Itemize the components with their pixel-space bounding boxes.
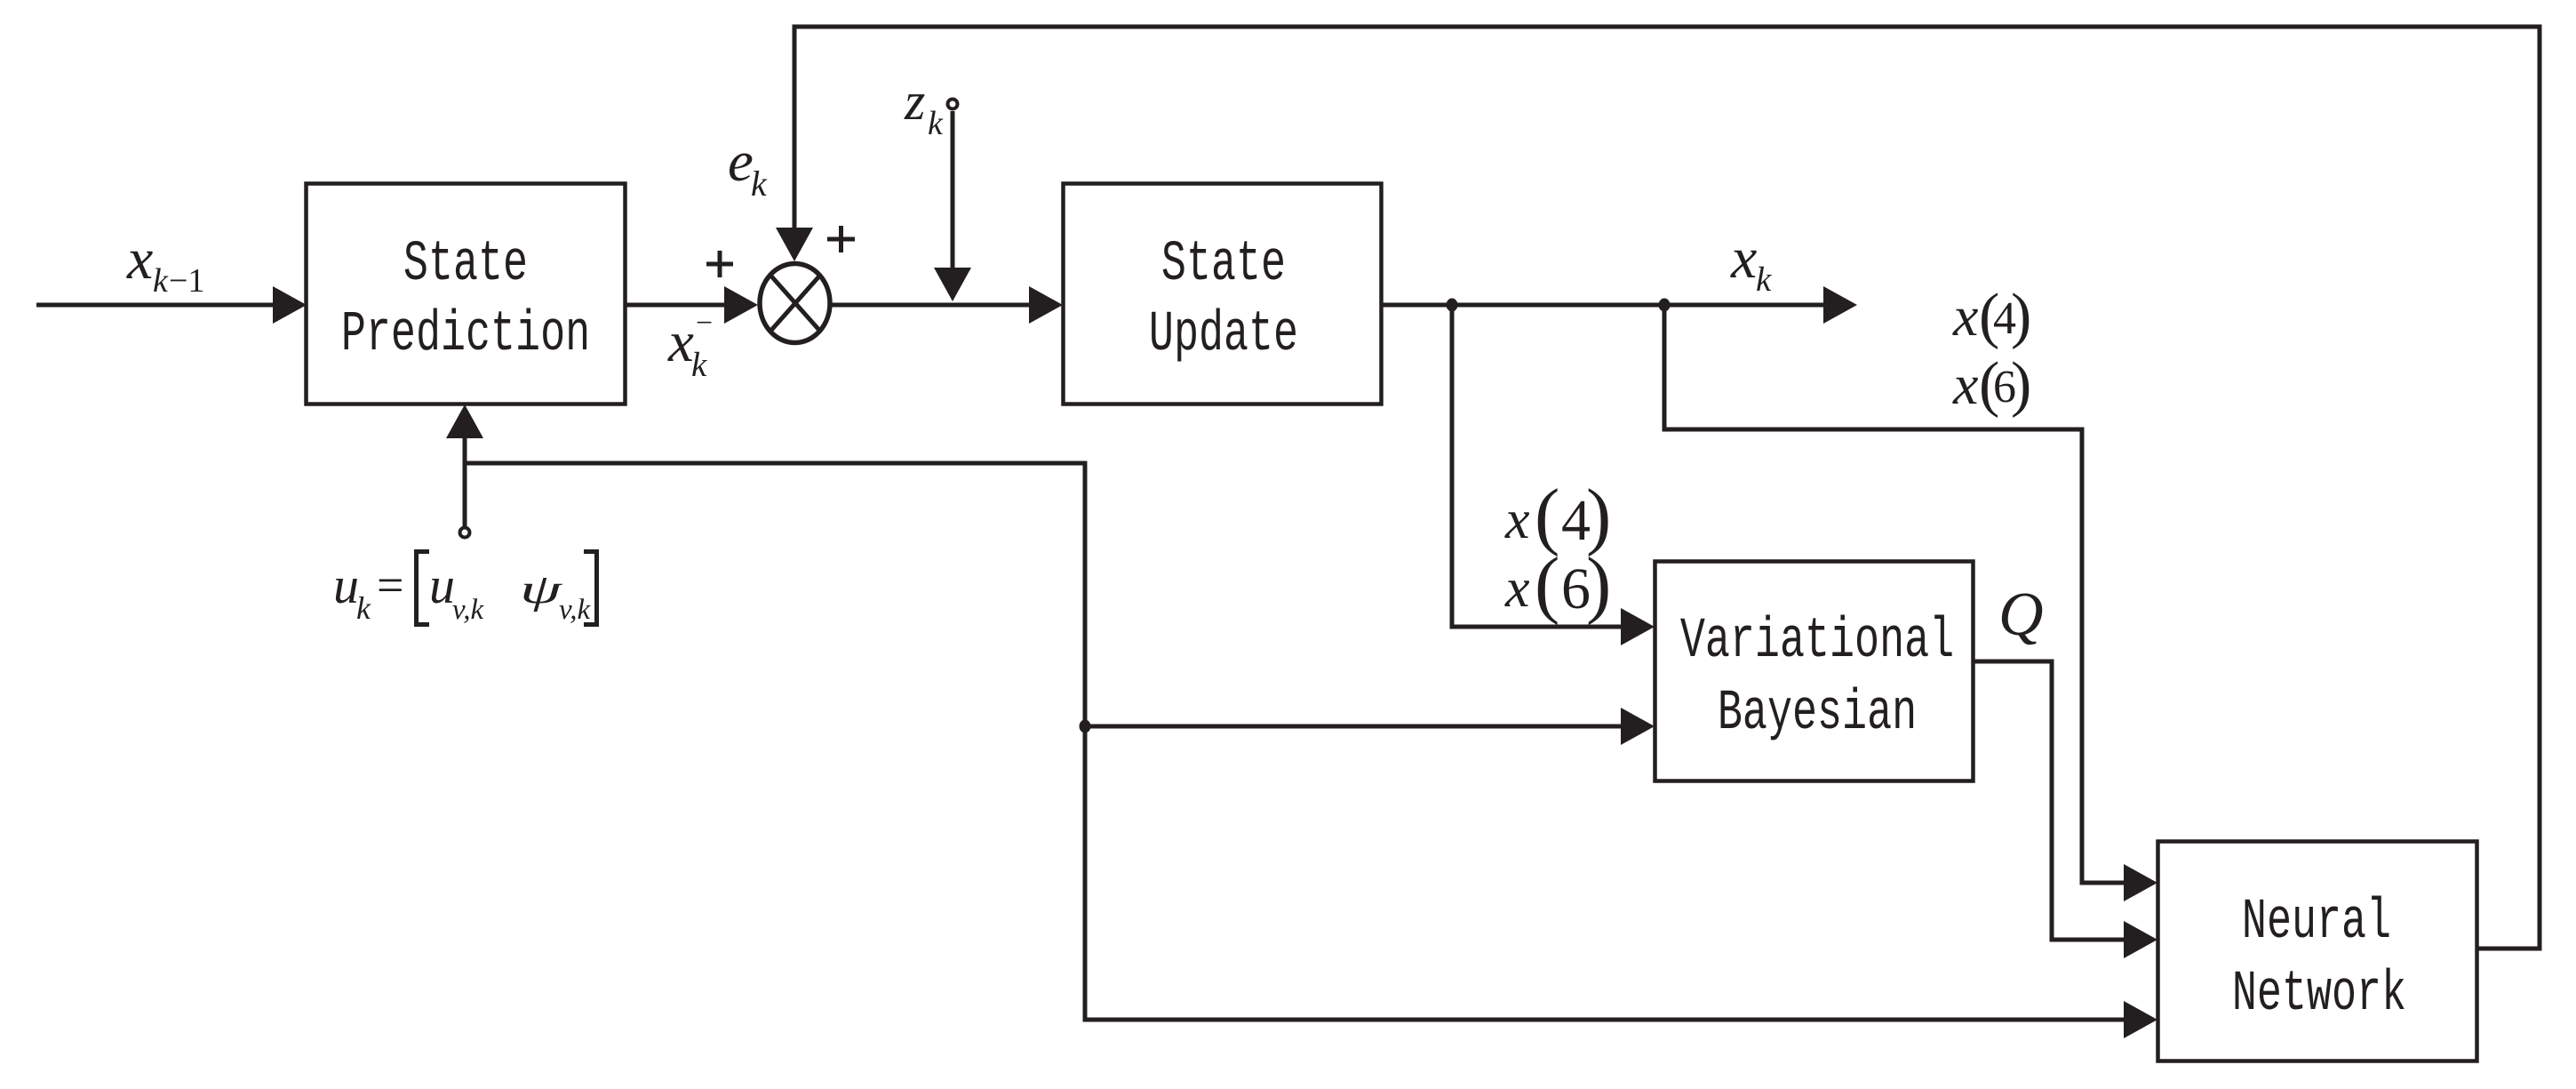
arrow e_k into summer top xyxy=(776,228,813,261)
svg-text:State: State xyxy=(1161,231,1286,296)
arrow u_k into State Prediction bottom xyxy=(446,404,483,438)
node junction J1 xyxy=(1447,299,1458,312)
svg-text:k: k xyxy=(751,164,768,204)
svg-text:x: x xyxy=(1504,490,1530,550)
svg-text:k: k xyxy=(356,590,371,626)
svg-text:x: x xyxy=(667,310,694,374)
arrow into Neural Network input 3 xyxy=(2124,1001,2157,1038)
arrow into Neural Network input 1 xyxy=(2124,864,2157,901)
summer (multiplier junction) xyxy=(760,264,830,343)
svg-text:Q: Q xyxy=(1998,581,2044,649)
wire u_k up into State Prediction xyxy=(463,436,467,526)
svg-text:u: u xyxy=(333,557,359,614)
wire feedback e_k from top into summer xyxy=(794,27,2540,949)
arrow into State Prediction xyxy=(273,286,307,324)
svg-text:v,k: v,k xyxy=(452,594,484,626)
svg-text:k: k xyxy=(928,105,944,142)
label u_k = [u_{v,k} psi_{v,k}] xyxy=(333,552,597,627)
svg-text:x: x xyxy=(1504,558,1530,619)
svg-text:Network: Network xyxy=(2232,961,2406,1026)
wire J3 to Variational Bayesian input 2 xyxy=(1085,725,1623,729)
svg-text:): ) xyxy=(2011,282,2031,350)
svg-text:Neural: Neural xyxy=(2242,889,2391,954)
label x_k xyxy=(1730,226,1772,299)
svg-text:−1: −1 xyxy=(169,262,204,300)
node junction J3 xyxy=(1080,720,1091,733)
wire input x_{k-1} xyxy=(36,303,277,308)
label e_k xyxy=(728,130,768,204)
label x(4) top xyxy=(1952,282,2031,350)
block Variational Bayesian U3 xyxy=(1655,562,1974,781)
svg-text:k: k xyxy=(1756,260,1772,299)
wire Q from Variational Bayesian to Neural Network input 2 xyxy=(1973,661,2126,940)
svg-text:ψ: ψ xyxy=(520,565,562,612)
svg-text:x: x xyxy=(1730,226,1757,291)
wire summer to State Update xyxy=(832,303,1033,308)
svg-text:x: x xyxy=(126,227,153,292)
svg-text:=: = xyxy=(377,558,403,612)
node z_k source terminal xyxy=(948,100,958,109)
svg-text:Variational: Variational xyxy=(1680,608,1954,673)
svg-text:z: z xyxy=(904,72,925,131)
node u_k source terminal xyxy=(460,528,470,538)
node junction J2 xyxy=(1659,299,1671,312)
svg-text:x: x xyxy=(1952,284,1978,348)
svg-text:−: − xyxy=(696,307,713,340)
arrow z_k onto wire xyxy=(934,268,971,301)
arrow into Neural Network input 2 xyxy=(2124,921,2157,958)
arrow x_k output xyxy=(1823,286,1857,324)
wire J1 down to Variational Bayesian input 1 xyxy=(1452,305,1623,627)
label plus right of summer xyxy=(827,226,855,252)
label z_k xyxy=(904,72,944,142)
svg-text:k: k xyxy=(691,346,707,384)
label x_{k-1} xyxy=(126,227,204,300)
wire State Prediction to summer xyxy=(626,303,729,308)
svg-text:Prediction: Prediction xyxy=(341,301,590,366)
svg-text:e: e xyxy=(728,130,754,194)
label plus left of summer xyxy=(706,251,733,277)
wire J2 x(4)x(6) branch to Neural Network input 1 xyxy=(1664,305,2126,883)
svg-text:Bayesian: Bayesian xyxy=(1718,680,1917,745)
label x(6) mid xyxy=(1504,542,1611,626)
svg-text:State: State xyxy=(403,231,528,296)
label x(4) mid xyxy=(1504,474,1611,557)
svg-text:v,k: v,k xyxy=(559,594,591,626)
arrow into summer left xyxy=(724,286,758,324)
svg-text:): ) xyxy=(2011,350,2031,419)
label x_k^- xyxy=(667,307,713,384)
svg-text:u: u xyxy=(429,557,455,614)
arrow into State Update xyxy=(1029,286,1063,324)
svg-text:(: ( xyxy=(1535,542,1559,626)
block State Update U2 xyxy=(1064,184,1382,404)
block Neural Network U4 xyxy=(2158,842,2477,1061)
label x(6) top xyxy=(1952,350,2031,419)
svg-text:): ) xyxy=(1586,542,1611,626)
wire State Update output x_k xyxy=(1382,303,1826,308)
arrow into Variational Bayesian input 1 xyxy=(1621,608,1655,645)
svg-text:k: k xyxy=(153,262,169,300)
arrow into Variational Bayesian input 2 xyxy=(1621,708,1655,745)
wire u_k branch to J3 and Neural Network input 3 xyxy=(465,463,2126,1020)
wire z_k down xyxy=(951,111,955,269)
svg-text:x: x xyxy=(1952,353,1978,416)
block State Prediction U1 xyxy=(307,184,626,404)
svg-text:Update: Update xyxy=(1149,301,1298,366)
